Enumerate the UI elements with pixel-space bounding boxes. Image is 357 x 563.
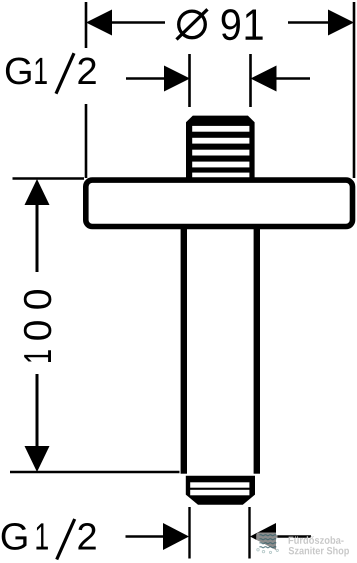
arrowhead bottom G1/2 left — [163, 523, 189, 550]
thread stripes bottom — [190, 482, 249, 495]
diameter symbol Ø — [177, 9, 208, 39]
pipe wall left — [181, 229, 187, 474]
label G 1/2 bottom — [2, 523, 96, 550]
fraction slash bottom — [57, 519, 75, 560]
extension line right of Ø91 dimension — [353, 2, 356, 178]
watermark icon waves — [260, 535, 277, 548]
arrowhead left Ø91 — [86, 10, 112, 36]
value label 100 — [24, 290, 52, 362]
watermark icon bubbles — [257, 549, 279, 554]
arrowhead top G1/2 right — [251, 66, 277, 92]
arrowhead top G1/2 left — [164, 66, 190, 92]
arrowhead right Ø91 — [328, 10, 354, 36]
arrowhead 100 up — [25, 179, 50, 205]
threaded outlet bottom — [186, 476, 255, 505]
ceiling flange plate — [86, 180, 353, 226]
arrowhead bottom G1/2 right — [250, 523, 276, 550]
extension line left of Ø91 dimension — [85, 2, 88, 178]
extension line top G1/2 left — [188, 54, 191, 107]
dimension line 100 — [36, 200, 39, 450]
threaded inlet top — [186, 116, 255, 178]
leader line top G1/2 left — [126, 77, 166, 80]
extension line pipe end bottom — [10, 471, 180, 474]
leader line bottom G1/2 right — [276, 535, 311, 537]
pipe wall right — [254, 229, 260, 474]
fraction slash top — [56, 53, 74, 93]
leader line bottom G1/2 left — [126, 535, 166, 537]
leader line top G1/2 right — [277, 77, 311, 80]
watermark icon background — [256, 533, 277, 554]
arrowhead 100 down — [25, 446, 50, 472]
dimension line Ø91 — [99, 21, 341, 24]
value label 91 — [222, 9, 263, 40]
extension line bottom G1/2 right — [248, 507, 250, 559]
extension line 100 top — [13, 177, 85, 180]
extension line top G1/2 right — [249, 54, 252, 107]
extension line bottom G1/2 left — [188, 507, 190, 559]
label G 1/2 top — [6, 57, 96, 84]
watermark text line 2 — [289, 547, 349, 557]
watermark text line 1 — [289, 536, 344, 544]
thread stripes top — [192, 126, 249, 178]
